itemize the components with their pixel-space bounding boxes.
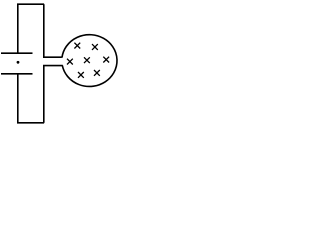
x mark 6 — [78, 72, 84, 78]
field region circle (open at tube mouth) — [62, 35, 117, 87]
node dot between plates — [17, 61, 20, 64]
wire: right vertical lower segment — [43, 66, 45, 123]
wire: upper channel line to field circle — [43, 56, 62, 58]
x mark 2 — [92, 44, 98, 50]
x mark 3 — [67, 59, 73, 65]
wire: top horizontal of left rectangle — [17, 3, 44, 5]
wire: left vertical from top rect to upper capacitor plate — [17, 4, 19, 53]
x mark 7 — [94, 70, 100, 76]
x mark 5 — [103, 57, 109, 63]
x mark 1 — [74, 43, 80, 49]
wire: bottom horizontal of left rectangle — [17, 122, 44, 124]
wire: lower channel line to field circle — [43, 65, 63, 67]
x mark 4 — [84, 57, 90, 63]
capacitor lower plate — [1, 73, 33, 75]
capacitor upper plate — [1, 52, 33, 54]
wire: left vertical from lower plate to bottom — [17, 74, 19, 123]
wire: right vertical upper segment — [43, 4, 45, 57]
